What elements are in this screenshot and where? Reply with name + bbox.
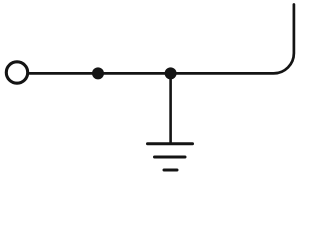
wire (vertical branch to ground) (169, 73, 172, 143)
junction dot 1 (92, 67, 104, 79)
junction dot 2 (165, 67, 177, 79)
wire (horizontal run curving up to top-right) (30, 5, 294, 74)
ground (148, 144, 193, 170)
terminal circle (open connection point) (6, 62, 27, 83)
